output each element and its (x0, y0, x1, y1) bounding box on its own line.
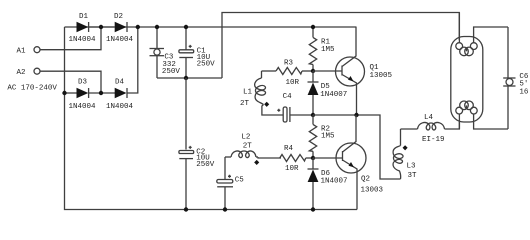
node C1 top (184, 25, 188, 29)
node C2 bottom (184, 207, 188, 211)
diode D3 1N4004 (69, 79, 97, 112)
capacitor C4 (277, 93, 313, 122)
node C1 bottom (184, 76, 188, 80)
lamp top-right pin (474, 27, 508, 43)
svg-text:3T: 3T (408, 172, 418, 180)
wire C2 riser (185, 78, 187, 150)
svg-text:10R: 10R (286, 79, 300, 87)
svg-text:Q1: Q1 (370, 64, 380, 72)
node D6 bottom (311, 207, 315, 211)
svg-text:L4: L4 (424, 114, 434, 122)
node Q1 base (311, 69, 315, 73)
wire D1-D2 segment (89, 26, 115, 28)
svg-text:250V: 250V (162, 68, 181, 76)
svg-text:1M5: 1M5 (321, 46, 335, 54)
diode D6 1N4007 (308, 158, 348, 210)
node junction D1-D2 (99, 25, 103, 29)
wire L1 bottom to C4 (262, 105, 283, 116)
svg-text:2T: 2T (240, 100, 250, 108)
capacitor C2 10U 250V (179, 146, 215, 210)
wire D4 cathode up to rail (127, 27, 138, 93)
wire midpoint riser to lamp (outer top) (222, 13, 459, 79)
svg-text:Q2: Q2 (361, 176, 370, 184)
svg-text:C3: C3 (164, 53, 174, 61)
svg-text:1N4007: 1N4007 (321, 177, 348, 185)
svg-text:C5: C5 (235, 176, 245, 184)
diode D5 1N4007 (308, 71, 348, 115)
inductor L1 2T (240, 71, 266, 108)
svg-text:D5: D5 (321, 83, 331, 91)
capacitor C5 (217, 175, 244, 210)
terminal A2 (17, 68, 102, 93)
svg-text:C4: C4 (283, 93, 293, 101)
svg-text:2T: 2T (243, 143, 253, 151)
inductor L3 3T (393, 129, 417, 180)
node C5 bottom (223, 207, 227, 211)
transistor Q1 13005 (313, 27, 393, 115)
svg-text:1N4004: 1N4004 (106, 103, 134, 111)
svg-text:L3: L3 (407, 163, 417, 171)
wire L2 left to C5 (224, 157, 226, 180)
svg-text:1N4007: 1N4007 (320, 91, 347, 99)
svg-text:D2: D2 (114, 13, 123, 21)
svg-text:A2: A2 (17, 69, 26, 77)
resistor R4 10R (280, 145, 313, 173)
wire mid row (313, 115, 401, 179)
svg-text:D1: D1 (79, 13, 89, 21)
node mid at D5 (311, 113, 315, 117)
svg-text:A1: A1 (17, 48, 27, 56)
svg-text:1N4004: 1N4004 (69, 36, 97, 44)
node R1 top (311, 25, 315, 29)
node C3 top (155, 25, 159, 29)
lamp tube (451, 37, 483, 123)
diode D1 1N4004 (69, 13, 97, 44)
lamp bottom-right pin (474, 115, 508, 130)
svg-text:L1: L1 (243, 89, 253, 97)
inductor L2 2T (225, 134, 258, 158)
svg-text:L2: L2 (241, 134, 250, 142)
svg-text:13005: 13005 (370, 72, 393, 80)
svg-text:1M5: 1M5 (321, 133, 335, 141)
node junction D3 anode (62, 91, 66, 95)
diode D4 1N4004 (106, 79, 134, 112)
inductor L4 EI-19 (401, 114, 460, 144)
lamp top filament (456, 43, 477, 56)
wire C3/C1 bottom row (157, 77, 222, 79)
svg-text:EI-19: EI-19 (422, 136, 445, 144)
diode D2 1N4004 (106, 13, 134, 44)
resistor R2 1M5 (309, 115, 335, 158)
lamp bottom-left pin (458, 115, 460, 130)
capacitor C1 10U 250V (179, 27, 215, 78)
terminal A1 (17, 27, 102, 56)
node junction D3-D4 (99, 91, 103, 95)
wire top rail (65, 26, 357, 28)
phase dot L3 (403, 145, 408, 150)
resistor R3 10R (276, 60, 313, 88)
resistor R1 1M5 (309, 27, 335, 71)
wire left vertical and bottom rail (65, 27, 358, 210)
node rail at D4 vertical (136, 25, 140, 29)
phase dot L1 (264, 102, 269, 107)
svg-text:R3: R3 (284, 60, 294, 68)
svg-text:1N4004: 1N4004 (69, 103, 97, 111)
svg-text:D3: D3 (78, 79, 88, 87)
svg-text:13003: 13003 (361, 187, 384, 195)
wire L1 top to R3 (262, 70, 277, 72)
transistor Q2 13003 (313, 115, 384, 210)
wire D3 row (65, 92, 78, 94)
svg-text:1N4004: 1N4004 (106, 36, 134, 44)
svg-text:AC 170-240V: AC 170-240V (7, 85, 57, 93)
node Q2 base (311, 156, 315, 160)
phase dot L2 (254, 160, 259, 165)
svg-text:D4: D4 (115, 79, 125, 87)
svg-text:10R: 10R (285, 165, 299, 173)
lamp bottom filament (456, 101, 477, 114)
svg-text:5': 5' (519, 80, 528, 88)
svg-text:R4: R4 (284, 145, 294, 153)
capacitor C3 332 250V (150, 27, 181, 78)
svg-text:250V: 250V (197, 60, 216, 68)
capacitor C6 (503, 27, 529, 129)
wire L2 to R4 (258, 157, 281, 158)
svg-text:16: 16 (519, 88, 529, 96)
node mid at Q1 emitter (354, 113, 358, 117)
lamp top-left pin (458, 13, 460, 43)
wire D3-D4 (89, 92, 115, 94)
svg-text:250V: 250V (196, 161, 215, 169)
